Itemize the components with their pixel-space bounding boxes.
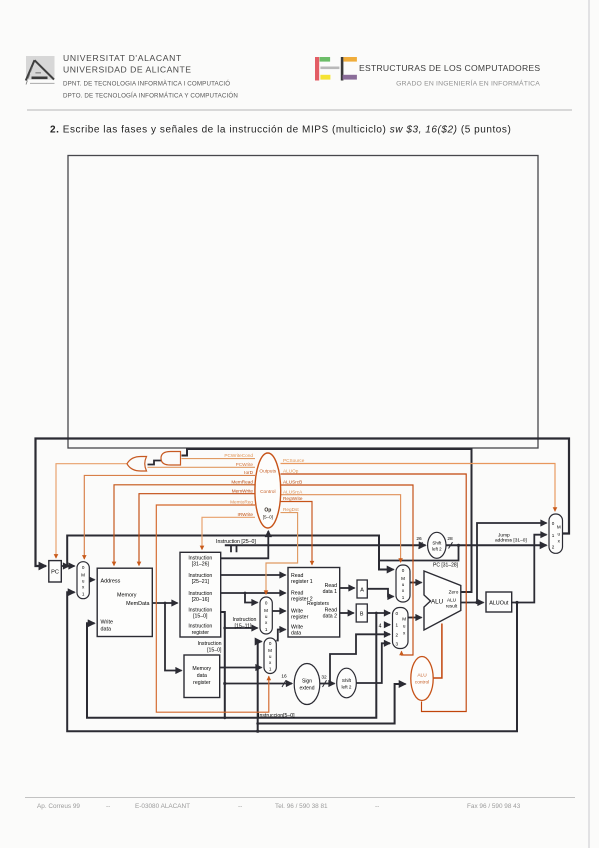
svg-text:2: 2: [396, 632, 399, 637]
wire MemtoReg mux output to Registers write data: [276, 630, 285, 641]
svg-text:Op: Op: [264, 508, 271, 514]
wire shift left 2 output to ALUSrcB input 3: [356, 643, 390, 683]
wire ALUOut wrap branch to MemtoReg mux input 0: [258, 642, 262, 732]
header rule: [27, 109, 572, 111]
svg-text:PC [31–28]: PC [31–28]: [433, 563, 459, 569]
svg-text:Outputs: Outputs: [259, 469, 276, 475]
wire ALUSrcB control to ALUSrcB mux bottom: [281, 485, 414, 655]
svg-text:Fax 96 / 590 98 43: Fax 96 / 590 98 43: [467, 803, 521, 810]
OR gate (PCWrite + branch), points left: [127, 457, 147, 472]
svg-text:register: register: [291, 615, 309, 621]
svg-text:0: 0: [82, 565, 85, 570]
wire PC[31-28] tap: [379, 545, 459, 560]
MemtoReg mux: [264, 638, 276, 674]
svg-text:[15–0]: [15–0]: [207, 647, 222, 653]
question text: [50, 125, 511, 136]
wire ALU control output to ALU: [434, 624, 442, 679]
svg-text:0: 0: [552, 521, 555, 526]
svg-text:M: M: [264, 608, 268, 613]
header: EC logo: [315, 57, 357, 81]
svg-text:M: M: [401, 576, 405, 581]
svg-text:M: M: [557, 525, 561, 530]
ALUSrcA mux: [396, 565, 410, 602]
svg-text:PCWriteCond: PCWriteCond: [224, 453, 253, 458]
svg-text:4: 4: [379, 624, 382, 630]
wire Read data 2 to B register: [340, 612, 354, 614]
wire OR gate output to PC write enable: [56, 464, 127, 558]
svg-text:GRADO EN INGENIERÍA EN INFORMÁ: GRADO EN INGENIERÍA EN INFORMÁTICA: [396, 79, 540, 88]
svg-text:IRWrite: IRWrite: [238, 512, 254, 517]
ALUSrcB mux: [393, 608, 409, 649]
control signal labels left: [224, 453, 253, 517]
svg-text:16: 16: [281, 674, 287, 680]
label Instruction [25-0]: [216, 539, 256, 545]
label 28: [447, 536, 453, 542]
svg-text:0: 0: [396, 611, 399, 616]
svg-text:Instruction: Instruction: [198, 641, 222, 647]
svg-text:PCSource: PCSource: [283, 458, 305, 463]
svg-text:Shift: Shift: [432, 540, 442, 545]
svg-text:Instruccion[5–0]: Instruccion[5–0]: [258, 713, 295, 719]
wire RegWrite control to Registers: [281, 502, 313, 565]
svg-text:[5–0]: [5–0]: [263, 515, 273, 520]
svg-text:[15–0]: [15–0]: [193, 613, 208, 619]
label Jump address [31-0]: [495, 532, 527, 543]
wire B register to ALUSrcB input 0: [367, 612, 390, 614]
svg-text:data: data: [291, 631, 301, 637]
svg-text:Ap. Correus 99: Ap. Correus 99: [37, 803, 80, 810]
label Instruction [15-11]: [233, 617, 257, 629]
wire PC output to IorD mux: [61, 565, 74, 567]
wire IorD mux output to Memory address: [89, 579, 94, 581]
footer text: [37, 803, 521, 810]
svg-text:Instruction [25–0]: Instruction [25–0]: [216, 539, 256, 545]
svg-text:[15–11]: [15–11]: [235, 623, 252, 629]
wire PC value top line to ALUSrcA input 0: [67, 536, 393, 570]
wire shift left 2 output jump address to PCSource mux input 2: [446, 542, 547, 548]
Memory box: [97, 568, 152, 636]
label 4: [379, 624, 382, 630]
svg-text:Sign: Sign: [302, 679, 312, 685]
ALUOut register box: [486, 592, 512, 612]
svg-text:control: control: [415, 680, 429, 686]
header: university name: [63, 53, 238, 100]
svg-text:2: 2: [552, 545, 555, 550]
svg-text:register: register: [193, 680, 211, 686]
wire RegDst mux output to write register: [272, 610, 285, 612]
svg-text:Jump: Jump: [498, 532, 510, 538]
wire IR[20-16] to Read register 2: [221, 592, 286, 594]
wire MemRead control to Memory: [114, 485, 255, 566]
svg-text:left 2: left 2: [342, 685, 352, 690]
wire ALU result branch to PCSource mux input 0: [477, 523, 547, 603]
Memory data register box: [184, 655, 220, 698]
svg-text:ALU: ALU: [447, 598, 457, 603]
Instruction register box: [180, 552, 221, 637]
svg-text:u: u: [82, 578, 85, 583]
svg-text:ALUOp: ALUOp: [283, 469, 299, 474]
wire MemData branch to MDR: [165, 603, 182, 671]
wire Instruction[15-11] to RegDst mux input 1: [225, 627, 258, 629]
svg-text:1: 1: [396, 623, 399, 628]
wire RegDst control to RegDst mux top: [266, 513, 298, 595]
svg-text:1: 1: [402, 595, 405, 600]
svg-text:Zero: Zero: [449, 590, 459, 595]
wire constant 4 to ALUSrcB input 1: [386, 624, 391, 626]
svg-text:data 1: data 1: [323, 589, 338, 595]
svg-text:ALU: ALU: [431, 599, 443, 606]
svg-text:Address: Address: [101, 578, 121, 584]
sign extend oval: [294, 664, 320, 705]
svg-text:data: data: [101, 627, 112, 633]
wire MemWrite control to Memory: [139, 494, 255, 566]
wire ALUOp control wrap to ALU control oval: [281, 474, 467, 712]
wire MemtoReg control wrap to MemtoReg mux bottom: [156, 505, 268, 712]
svg-text:data 2: data 2: [323, 614, 338, 620]
svg-text:--: --: [375, 803, 379, 810]
wire ALU result to ALUOut: [461, 602, 484, 604]
label PC [31-28]: [433, 563, 459, 569]
B register box: [356, 604, 367, 622]
svg-text:M: M: [81, 572, 85, 577]
svg-text:[31–26]: [31–26]: [192, 561, 210, 567]
svg-text:IorD: IorD: [244, 470, 253, 475]
svg-text:u: u: [402, 582, 405, 587]
svg-text:26: 26: [416, 536, 422, 542]
wire IR[20-16] branch to RegDst mux input 0: [245, 593, 258, 603]
svg-text:register 1: register 1: [291, 579, 313, 585]
svg-text:0: 0: [269, 641, 272, 646]
svg-text:28: 28: [447, 536, 453, 542]
ALU trapezoid: [424, 571, 461, 630]
svg-text:E-03080 ALACANT: E-03080 ALACANT: [135, 803, 190, 810]
RegDst mux: [260, 597, 272, 634]
svg-text:u: u: [403, 624, 406, 629]
wire instruction[25-0] jump line into shift left 2: [225, 542, 426, 548]
wire PCSource control to PCSource mux: [281, 464, 556, 512]
svg-text:1: 1: [82, 591, 85, 596]
wire A register to ALUSrcA input 1: [367, 589, 393, 597]
wire Read data 1 to A register: [340, 587, 355, 589]
wire AND output step to OR gate: [148, 461, 162, 465]
Registers box: [288, 568, 340, 638]
svg-text:PC: PC: [51, 570, 59, 576]
wire ALUSrcB mux output to ALU: [408, 617, 422, 619]
svg-text:[25–21]: [25–21]: [192, 579, 210, 585]
wire IR[15-0] vertical bundle: [221, 612, 225, 718]
header: subject name: [359, 63, 540, 88]
svg-text:Control: Control: [260, 489, 275, 495]
wire Instruction[5-0] to ALU control: [258, 684, 406, 724]
svg-text:register: register: [192, 630, 210, 636]
svg-text:address [31–0]: address [31–0]: [495, 538, 527, 544]
wire sign extend output to shift left 2 bottom: [320, 680, 335, 687]
A register box: [357, 580, 367, 598]
shift left 2 oval (branch): [337, 668, 357, 698]
wire IRWrite control to instruction register: [202, 517, 255, 549]
svg-text:Instruction: Instruction: [233, 617, 257, 623]
svg-text:Memory: Memory: [117, 593, 137, 599]
wire B register wrap to Memory write data: [87, 613, 376, 718]
svg-text:PCWrite: PCWrite: [236, 462, 254, 467]
svg-text:extend: extend: [299, 686, 314, 692]
svg-text:Instruction: Instruction: [188, 623, 212, 629]
svg-text:ALUSrcA: ALUSrcA: [283, 489, 303, 494]
wire PCWriteCond control to AND gate: [182, 458, 256, 460]
svg-text:0: 0: [402, 568, 405, 573]
shift left 2 oval (jump): [428, 532, 446, 558]
svg-text:u: u: [269, 654, 272, 659]
wire Zero to AND gate loop: [182, 449, 472, 592]
control signal labels right: [283, 458, 305, 512]
wire ALUSrcA control to ALUSrcA mux top: [281, 495, 401, 563]
svg-text:UNIVERSITAT D'ALACANT: UNIVERSITAT D'ALACANT: [63, 53, 182, 63]
label Instruccion [5-0]: [258, 713, 295, 719]
label 32: [321, 675, 327, 681]
svg-text:MemRead: MemRead: [231, 479, 253, 484]
PCSource mux: [549, 514, 563, 553]
svg-text:left 2: left 2: [432, 546, 442, 551]
wire PC write-back loop (mux out, top border, into PC): [36, 439, 570, 567]
svg-text:RegDst: RegDst: [283, 507, 299, 512]
svg-text:1: 1: [265, 627, 268, 632]
label 16: [281, 674, 287, 680]
svg-text:B: B: [360, 612, 364, 618]
svg-text:2. Escribe las fases y señales: 2. Escribe las fases y señales de la ins…: [50, 125, 511, 136]
wire ALUOut output riser to PCSource mux input 1: [512, 535, 547, 603]
control unit oval: [255, 453, 281, 528]
wire PCWrite control to OR gate: [148, 466, 256, 468]
svg-text:32: 32: [321, 675, 327, 681]
svg-text:Memory: Memory: [192, 666, 211, 672]
label Instruction [15-0] lower: [198, 641, 222, 653]
junction dots: [66, 544, 519, 733]
wire IorD control to IorD mux: [84, 475, 255, 559]
wire IR[31-26] to Control Op input: [221, 531, 269, 558]
svg-text:Write: Write: [101, 620, 113, 626]
svg-text:ALUSrcB: ALUSrcB: [283, 480, 302, 485]
svg-text:M: M: [402, 617, 406, 622]
svg-text:M: M: [268, 648, 272, 653]
svg-text:3: 3: [396, 641, 399, 646]
AND gate (PCWriteCond AND Zero), points left: [161, 452, 181, 466]
svg-text:1: 1: [552, 533, 555, 538]
svg-text:ALU: ALU: [417, 673, 427, 679]
wire MemData to IR: [152, 602, 177, 604]
answer box: [68, 156, 538, 449]
footer rule: [25, 797, 575, 799]
svg-text:MemWrite: MemWrite: [232, 488, 254, 493]
svg-text:UNIVERSIDAD DE ALICANTE: UNIVERSIDAD DE ALICANTE: [63, 65, 192, 75]
scan paper right edge: [588, 0, 590, 848]
svg-text:MemtoReg: MemtoReg: [230, 500, 253, 505]
svg-text:--: --: [106, 803, 110, 810]
label 26: [416, 536, 422, 542]
svg-text:A: A: [360, 588, 364, 594]
svg-text:result: result: [446, 604, 458, 609]
svg-text:Tel. 96 / 590 38 81: Tel. 96 / 590 38 81: [275, 803, 328, 810]
wire IR bundle risers: [231, 545, 237, 552]
svg-text:1: 1: [269, 667, 272, 672]
wire sign extend branch to ALUSrcB input 2: [330, 634, 390, 683]
svg-text:u: u: [558, 532, 561, 537]
wire MDR output to MemtoReg mux input 1: [220, 667, 262, 669]
wire Instruction[15-0] to sign extend: [225, 680, 292, 687]
ALU control oval: [411, 657, 433, 701]
wire ALUOut wrap to IorD mux input 1: [67, 592, 517, 731]
wire ALUSrcA mux output to ALU: [410, 582, 422, 584]
svg-text:DPNT. DE TECNOLOGIA INFORMÀTIC: DPNT. DE TECNOLOGIA INFORMÀTICA I COMPUT…: [63, 80, 230, 87]
svg-text:--: --: [238, 803, 242, 810]
svg-text:Registers: Registers: [307, 601, 329, 607]
svg-text:[20–16]: [20–16]: [192, 597, 210, 603]
wire IR[25-21] to Read register 1: [221, 574, 286, 576]
svg-text:ESTRUCTURAS DE LOS COMPUTADORE: ESTRUCTURAS DE LOS COMPUTADORES: [359, 63, 540, 73]
svg-text:u: u: [265, 614, 268, 619]
header: university logo: [26, 56, 55, 85]
svg-text:ALUOut: ALUOut: [489, 601, 509, 607]
IorD mux: [77, 562, 89, 599]
svg-text:Shift: Shift: [342, 678, 352, 683]
PC register box: [49, 561, 62, 582]
svg-text:RegWrite: RegWrite: [283, 496, 303, 501]
svg-text:DPTO. DE TECNOLOGÍA INFORMÁTIC: DPTO. DE TECNOLOGÍA INFORMÁTICA Y COMPUT…: [63, 92, 238, 99]
svg-text:MemData: MemData: [126, 601, 149, 607]
svg-text:data: data: [197, 673, 207, 679]
svg-text:0: 0: [265, 600, 268, 605]
